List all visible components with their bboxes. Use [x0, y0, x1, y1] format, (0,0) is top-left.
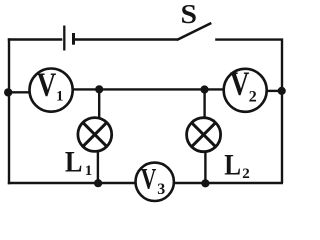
wire: battery to switch pivot: [75, 38, 178, 40]
wire: bottom-right horizontal: [174, 182, 283, 184]
lamp L2: [187, 118, 221, 152]
wire: L1 branch upper vertical: [98, 89, 100, 119]
svg-text:V: V: [37, 66, 57, 104]
svg-text:S: S: [181, 0, 198, 29]
switch S blade (open): [177, 23, 212, 40]
node: L1 top junction: [95, 85, 103, 93]
battery short plate (-): [72, 33, 75, 45]
wire: L2 branch upper vertical: [203, 89, 205, 118]
wire: left node to voltmeter V1: [8, 91, 30, 93]
node: L2 bottom junction: [201, 179, 209, 187]
node: right wire / V2 junction: [278, 87, 286, 95]
svg-text:L: L: [65, 146, 83, 179]
wire: V1 to V2 middle horizontal: [72, 88, 225, 90]
node: L2 top junction: [200, 85, 208, 93]
node: left wire / V1 junction: [4, 88, 12, 96]
svg-text:1: 1: [85, 163, 93, 179]
wire: L1 branch lower vertical: [97, 151, 99, 183]
node: L1 bottom junction: [94, 179, 102, 187]
voltmeter V3: [136, 162, 174, 201]
wire: top-left horizontal (battery left lead): [8, 38, 63, 40]
voltmeter V2: [224, 65, 267, 112]
label L1: [65, 146, 92, 179]
svg-text:L: L: [224, 147, 241, 181]
lamp L1: [78, 118, 112, 152]
wire: L2 branch lower vertical: [204, 151, 206, 183]
wire: switch right contact to top-right corner and down right side: [215, 40, 282, 183]
wire: V2 to right node: [266, 90, 281, 92]
svg-text:1: 1: [56, 88, 64, 104]
wire: left side vertical: [8, 38, 10, 184]
svg-text:3: 3: [157, 181, 165, 198]
svg-text:2: 2: [249, 89, 257, 106]
svg-text:2: 2: [242, 166, 250, 182]
svg-text:V: V: [230, 65, 250, 103]
battery long plate (+): [63, 26, 65, 51]
wire: bottom-left horizontal: [8, 182, 136, 184]
voltmeter V1: [29, 66, 72, 112]
label L2: [224, 147, 250, 182]
svg-text:V: V: [141, 162, 157, 195]
